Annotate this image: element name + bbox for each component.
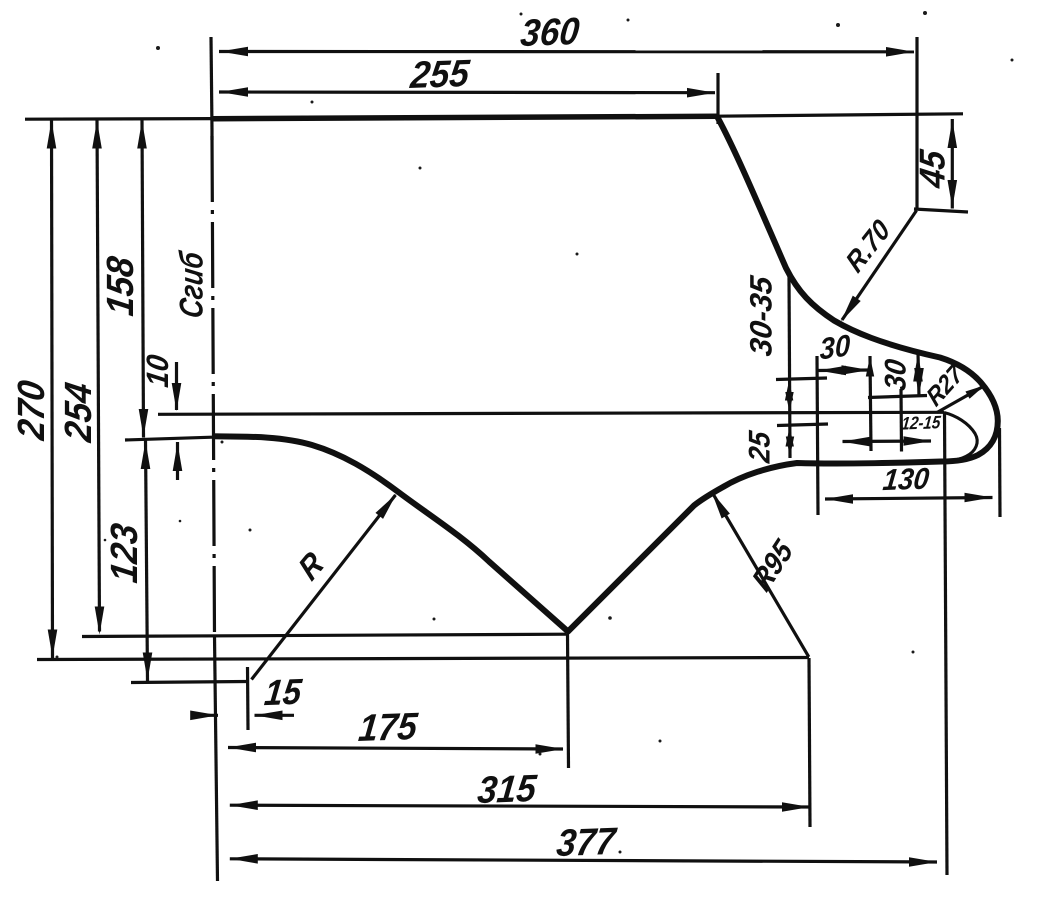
top edge extension line (left of fold) [25, 117, 212, 121]
svg-text:123: 123 [103, 521, 145, 585]
extension below V x=568 [568, 634, 569, 768]
leader R (left big radius) [252, 495, 396, 680]
extension line x=917 (right, for 360 and 45) [915, 37, 918, 210]
extension x=946 (for 377, from hook) [945, 413, 948, 875]
dimension 30-35 / 25 vertical line x=789 [789, 276, 790, 458]
dimension 130 line [825, 498, 993, 500]
fold reference line lower solid part [215, 636, 218, 881]
svg-text:15: 15 [263, 673, 305, 714]
dimension 255 line [219, 90, 715, 94]
extension line x=718 (for 255) [716, 73, 719, 124]
hook inner rolled-edge curve [944, 413, 977, 461]
leader R70 [842, 211, 917, 321]
scan speckles [156, 46, 160, 50]
svg-text:30: 30 [879, 357, 912, 392]
dimension 45 line [951, 119, 954, 209]
svg-text:25: 25 [743, 428, 776, 465]
svg-text:130: 130 [881, 463, 931, 498]
svg-text:255: 255 [408, 52, 472, 97]
dimension 175 line [228, 748, 563, 750]
extension V4 x=870.5 with top arrow [870, 356, 871, 451]
fold centerline (dash-dot), Сгиб [212, 136, 215, 636]
svg-text:270: 270 [10, 377, 52, 443]
dimension 377 line [230, 859, 937, 862]
dimension 158 line [142, 120, 144, 438]
R-center vertical stub x=248 [246, 667, 250, 730]
R-center horizontal line y=682 [131, 682, 247, 683]
dimension 123 line [146, 440, 148, 681]
extension V2 x=817.5 [817, 356, 818, 515]
svg-text:377: 377 [555, 820, 619, 865]
dimension 10 lower arrow [176, 442, 179, 480]
leader R95 [713, 493, 809, 657]
svg-text:175: 175 [357, 705, 420, 750]
extension x=809 (for 315) [809, 658, 810, 827]
dimension 12-15 double arrow [843, 439, 932, 443]
dimension 315 line [230, 805, 810, 807]
svg-text:Сгиб: Сгиб [174, 248, 210, 320]
svg-text:30: 30 [820, 329, 850, 367]
svg-text:45: 45 [913, 147, 952, 191]
svg-text:10: 10 [141, 352, 175, 389]
svg-text:12-15: 12-15 [900, 412, 942, 434]
hook bend line C y=424.5 [777, 424, 828, 426]
top edge extension line (right of corner) [717, 114, 963, 116]
curve-start extension line y=438 [125, 437, 212, 440]
extension line above fold (for 360/255) [211, 37, 212, 130]
part outline: right contour, hook and bottom (bold) [213, 116, 998, 631]
svg-text:360: 360 [519, 10, 582, 55]
dimension 30 vertical line [918, 353, 919, 397]
dimension 254 line [97, 120, 100, 632]
extension x=1000 (for 130) [998, 428, 1002, 517]
svg-text:315: 315 [476, 767, 539, 812]
dimension 270 line [52, 120, 53, 659]
dimension 30 horizontal line [818, 368, 871, 372]
dimension 10 upper arrow [175, 362, 178, 410]
leader R27 [937, 386, 984, 413]
dimension 360 line [219, 50, 914, 53]
bottom reference line y=659 [37, 658, 809, 660]
svg-text:158: 158 [99, 253, 141, 318]
svg-text:30-35: 30-35 [744, 273, 779, 358]
part outline: top edge (bold) [213, 116, 717, 118]
line y=396.5 (hook bend line) [868, 396, 927, 398]
dimension 15 right arrow [255, 714, 295, 717]
bottom reference line y=636 [82, 634, 566, 636]
svg-text:254: 254 [57, 380, 99, 445]
extension V5 x=901 [899, 389, 903, 452]
flange line y=413 [158, 412, 944, 414]
hook bend line A y=379 [776, 378, 827, 380]
dimension 15 left arrow [197, 714, 218, 717]
45 lower extension line [914, 209, 968, 212]
